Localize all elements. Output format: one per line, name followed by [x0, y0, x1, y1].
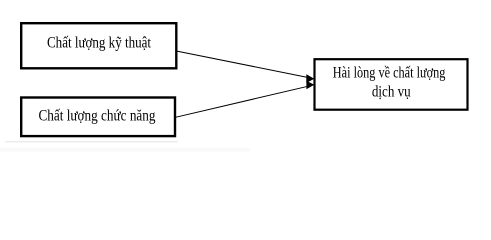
box B: Chất lượng chức năng — [21, 98, 175, 137]
svg-text:Hài lòng về chất lượng: Hài lòng về chất lượng — [333, 65, 446, 82]
arrow from box A to box C — [178, 51, 315, 83]
svg-text:Chất lượng kỹ thuật: Chất lượng kỹ thuật — [47, 35, 151, 52]
svg-text:dịch vụ: dịch vụ — [372, 84, 411, 101]
svg-text:Chất lượng chức năng: Chất lượng chức năng — [39, 108, 156, 125]
box A: Chất lượng kỹ thuật — [21, 23, 176, 68]
faint scan artifact streak below box B — [5, 141, 178, 143]
faint scan artifact band bottom-left — [0, 148, 250, 152]
arrow from box B to box C — [176, 81, 314, 117]
box C: Hài lòng về chất lượng dịch vụ — [315, 59, 468, 109]
